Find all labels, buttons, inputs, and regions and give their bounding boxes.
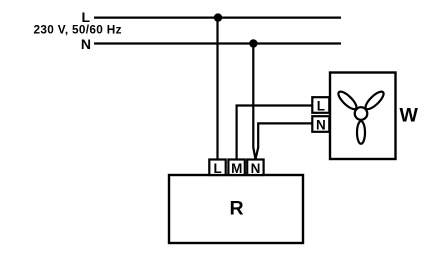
wire from L line down to terminal L of R bbox=[216, 18, 218, 161]
fan symbol hub bbox=[355, 107, 368, 120]
svg-text:N: N bbox=[316, 118, 326, 133]
box W (fan) bbox=[330, 73, 396, 160]
wire N supply line bbox=[94, 42, 341, 44]
terminal N of R bbox=[247, 160, 263, 176]
terminal N of W bbox=[312, 116, 329, 132]
wire from terminal M of R up and right to terminal L of W bbox=[237, 106, 313, 161]
svg-text:230 V, 50/60 Hz: 230 V, 50/60 Hz bbox=[34, 22, 122, 36]
wire from terminal N of W left and down to terminal N of R bbox=[256, 123, 313, 158]
svg-text:N: N bbox=[251, 161, 261, 176]
terminal L of W bbox=[312, 97, 329, 113]
svg-text:M: M bbox=[231, 161, 242, 176]
junction dot on N line bbox=[249, 39, 257, 47]
fan symbol blade upper-right bbox=[363, 89, 386, 112]
svg-text:N: N bbox=[81, 36, 91, 52]
wire L supply line bbox=[94, 17, 341, 19]
wire from N line down to terminal N of R bbox=[253, 44, 255, 159]
svg-text:R: R bbox=[229, 198, 243, 220]
svg-text:L: L bbox=[213, 161, 221, 176]
fan symbol blade upper-left bbox=[336, 89, 359, 112]
terminal L of R bbox=[209, 160, 225, 176]
svg-text:L: L bbox=[317, 99, 325, 114]
fan symbol blade bottom bbox=[357, 121, 365, 144]
svg-text:W: W bbox=[400, 104, 419, 126]
junction dot on L line bbox=[214, 13, 222, 21]
terminal M of R bbox=[228, 160, 244, 176]
box R (receiver) bbox=[169, 175, 303, 243]
